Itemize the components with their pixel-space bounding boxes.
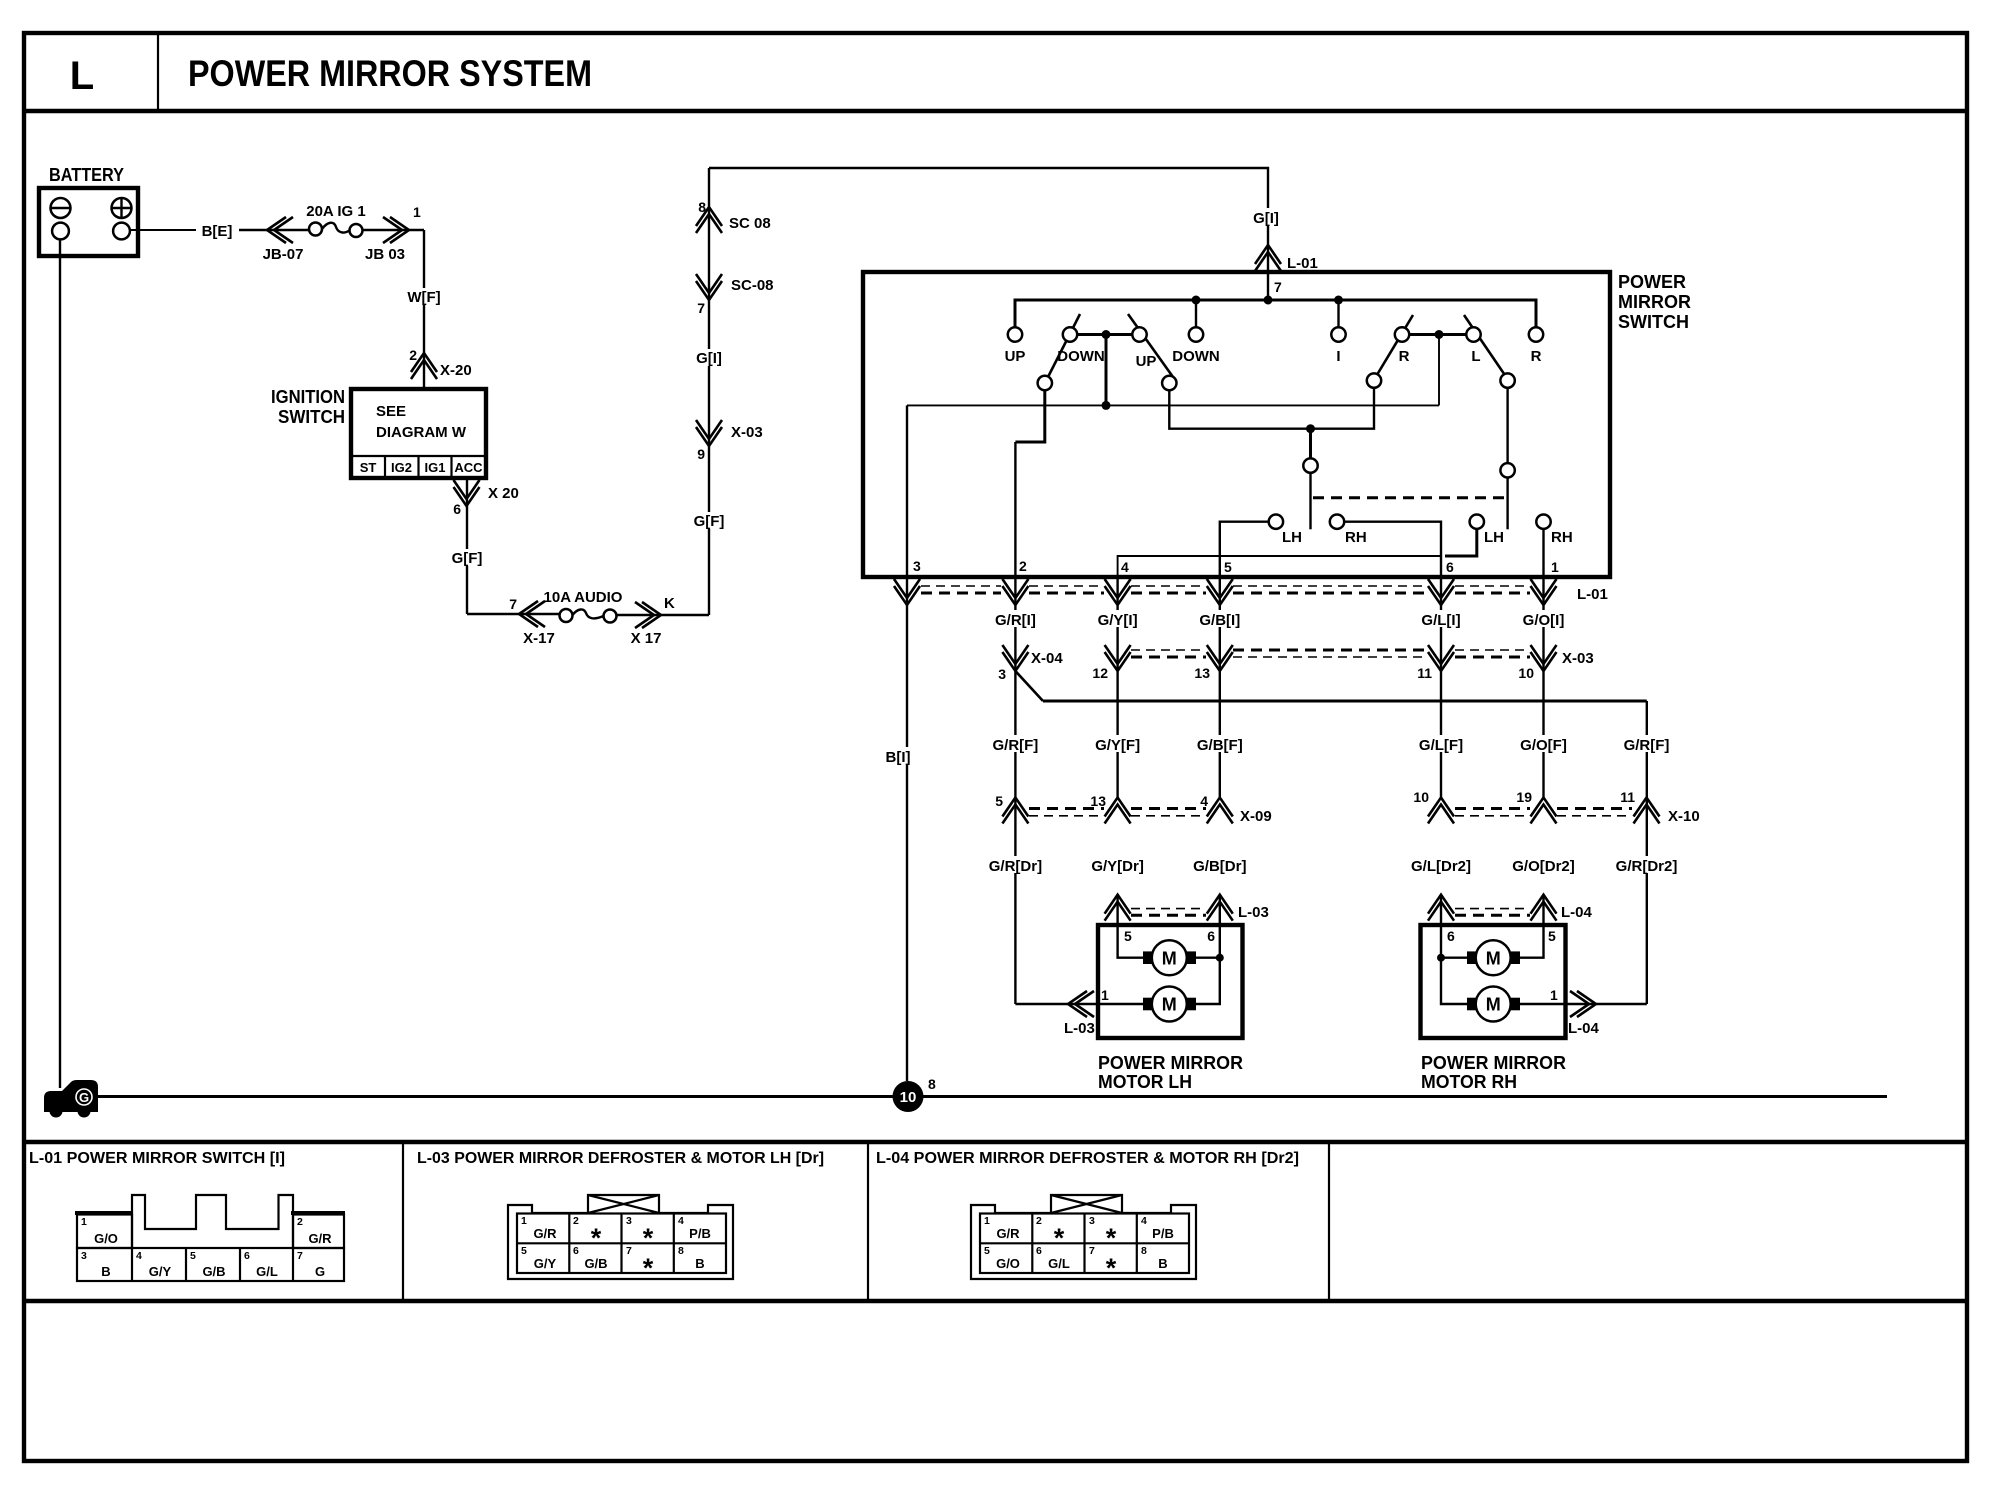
- node G/Y[F]: [1091, 735, 1144, 754]
- svg-text:X-17: X-17: [523, 630, 555, 647]
- switch blade UP: [1128, 314, 1173, 377]
- svg-text:M: M: [1162, 995, 1177, 1015]
- connector L-04 pin 6: [1428, 895, 1454, 921]
- svg-text:L-04 POWER MIRROR DEFROSTER &: L-04 POWER MIRROR DEFROSTER & MOTOR RH […: [876, 1150, 1299, 1167]
- svg-text:X-09: X-09: [1240, 808, 1272, 825]
- svg-text:G/Y[F]: G/Y[F]: [1095, 737, 1140, 754]
- svg-text:7: 7: [626, 1245, 632, 1257]
- wire G/O[I]: [1542, 577, 1544, 798]
- node G/O[F]: [1517, 735, 1570, 754]
- svg-text:7: 7: [509, 596, 517, 612]
- svg-text:4: 4: [678, 1215, 684, 1227]
- svg-text:4: 4: [1141, 1215, 1147, 1227]
- svg-text:L: L: [70, 54, 94, 98]
- connector X 17 pin K: [635, 602, 661, 628]
- svg-text:1: 1: [1551, 559, 1559, 575]
- svg-text:G/L[I]: G/L[I]: [1421, 612, 1460, 629]
- svg-text:2: 2: [1019, 558, 1027, 574]
- wire W[F]: [423, 230, 425, 389]
- svg-text:*: *: [1054, 1223, 1065, 1253]
- svg-text:G/R[F]: G/R[F]: [992, 737, 1038, 754]
- svg-text:8: 8: [678, 1245, 684, 1257]
- svg-text:L-01 POWER MIRROR SWITCH [I]: L-01 POWER MIRROR SWITCH [I]: [29, 1150, 285, 1167]
- wire: [617, 614, 710, 616]
- dashed bus: [921, 585, 1001, 587]
- node G/L[Dr2]: [1408, 856, 1474, 875]
- svg-text:7: 7: [297, 1250, 303, 1262]
- svg-text:B[I]: B[I]: [886, 749, 911, 766]
- svg-text:G/O: G/O: [996, 1256, 1020, 1271]
- svg-text:6: 6: [244, 1250, 250, 1262]
- connector L-01 pin 6: [1428, 579, 1454, 605]
- wire pin7 into switch: [1267, 272, 1269, 300]
- svg-text:X 17: X 17: [631, 630, 662, 647]
- svg-text:RH: RH: [1345, 529, 1367, 546]
- wire: [363, 229, 425, 231]
- svg-text:G/B: G/B: [584, 1256, 607, 1271]
- wire pin4 rail: [1118, 556, 1441, 577]
- svg-text:7: 7: [1274, 279, 1282, 295]
- connector L-01 pin 2: [1002, 579, 1028, 605]
- svg-text:IG1: IG1: [425, 460, 446, 475]
- svg-text:G[I]: G[I]: [696, 350, 722, 367]
- svg-text:UP: UP: [1005, 348, 1026, 365]
- wire: [239, 229, 309, 231]
- ground bus: [88, 1095, 1887, 1098]
- node G/B[Dr]: [1190, 856, 1249, 875]
- svg-text:X-04: X-04: [1031, 650, 1063, 667]
- svg-text:R: R: [1531, 348, 1542, 365]
- svg-text:P/B: P/B: [1152, 1226, 1174, 1241]
- node G/R[F]: [989, 735, 1042, 754]
- svg-text:LH: LH: [1282, 529, 1302, 546]
- svg-text:G/B[I]: G/B[I]: [1199, 612, 1240, 629]
- svg-text:G/R[Dr2]: G/R[Dr2]: [1616, 858, 1678, 875]
- svg-text:7: 7: [1089, 1245, 1095, 1257]
- connector L-03 pin 1: [1068, 991, 1094, 1017]
- svg-text:MOTOR RH: MOTOR RH: [1421, 1072, 1517, 1092]
- switch blade DOWN: [1048, 314, 1080, 377]
- svg-text:6: 6: [1207, 928, 1215, 944]
- contact UP: [1008, 327, 1022, 341]
- node G/R[I]: [990, 610, 1041, 629]
- svg-text:POWER MIRROR: POWER MIRROR: [1098, 1053, 1243, 1073]
- svg-text:1: 1: [413, 204, 421, 220]
- connector detail L-03: [508, 1195, 733, 1283]
- svg-text:G: G: [79, 1090, 89, 1105]
- svg-text:L-04: L-04: [1568, 1020, 1600, 1037]
- svg-text:MIRROR: MIRROR: [1618, 292, 1691, 312]
- svg-text:MOTOR LH: MOTOR LH: [1098, 1072, 1192, 1092]
- svg-text:8: 8: [928, 1076, 936, 1092]
- svg-text:JB 03: JB 03: [365, 246, 405, 263]
- svg-text:I: I: [1336, 348, 1340, 365]
- svg-text:10: 10: [900, 1089, 917, 1106]
- svg-text:L: L: [1471, 348, 1480, 365]
- wire pin6 RH: [1441, 895, 1467, 1004]
- node G/O[Dr2]: [1510, 856, 1577, 875]
- svg-text:IGNITION: IGNITION: [271, 387, 345, 407]
- ground car symbol G: [44, 1080, 98, 1118]
- svg-text:11: 11: [1620, 789, 1635, 805]
- svg-text:G/Y: G/Y: [149, 1264, 172, 1279]
- connector X-10 pin 11: [1634, 798, 1660, 824]
- svg-text:10: 10: [1518, 665, 1534, 681]
- connector L-03 pin 6: [1207, 895, 1233, 921]
- svg-text:7: 7: [697, 300, 705, 316]
- wire X-04 jog to right column: [1015, 671, 1043, 701]
- connector X-09 pin 5: [1002, 798, 1028, 824]
- switch blade R: [1378, 315, 1414, 374]
- svg-text:*: *: [643, 1223, 654, 1253]
- svg-text:4: 4: [1200, 793, 1208, 809]
- svg-text:X-03: X-03: [731, 424, 763, 441]
- contact I: [1331, 327, 1345, 341]
- svg-text:3: 3: [81, 1250, 87, 1262]
- svg-text:SWITCH: SWITCH: [1618, 312, 1689, 332]
- svg-text:G/Y: G/Y: [534, 1256, 557, 1271]
- svg-text:G/B[Dr]: G/B[Dr]: [1193, 858, 1246, 875]
- wire G/B[I]: [1219, 577, 1221, 798]
- node G/Y[I]: [1092, 610, 1143, 629]
- connector L-04 pin 1: [1570, 991, 1596, 1017]
- switch blade L: [1464, 315, 1505, 375]
- svg-text:G/O[I]: G/O[I]: [1523, 612, 1565, 629]
- connector L-01 pin 4: [1105, 579, 1131, 605]
- motor M up/down LH: [1143, 940, 1196, 975]
- wire right outer drop: [1506, 388, 1508, 463]
- wire pin5 RH: [1520, 895, 1544, 958]
- ignition switch: [271, 387, 486, 478]
- svg-text:X-10: X-10: [1668, 808, 1700, 825]
- svg-text:G/O: G/O: [94, 1231, 118, 1246]
- connector detail L-01: [75, 1195, 345, 1281]
- svg-text:X-03: X-03: [1562, 650, 1594, 667]
- svg-text:M: M: [1162, 948, 1177, 968]
- svg-text:SC-08: SC-08: [731, 277, 774, 294]
- svg-text:*: *: [1106, 1253, 1117, 1283]
- wire G/R[F] left column: [1014, 671, 1016, 1004]
- wire pole link: [1169, 388, 1374, 429]
- svg-text:LH: LH: [1484, 529, 1504, 546]
- svg-text:10A AUDIO: 10A AUDIO: [544, 589, 623, 606]
- svg-text:5: 5: [984, 1245, 990, 1257]
- junction: [1192, 296, 1201, 305]
- motor M up/down RH: [1467, 940, 1520, 975]
- power mirror switch box: [863, 272, 1691, 577]
- connector detail L-04: [971, 1195, 1196, 1283]
- contact RH: [1330, 515, 1344, 529]
- svg-text:G/R: G/R: [533, 1226, 557, 1241]
- svg-text:L-01: L-01: [1287, 255, 1318, 272]
- wire pin5: [1220, 522, 1269, 577]
- svg-text:G/Y[I]: G/Y[I]: [1098, 612, 1138, 629]
- svg-text:5: 5: [1548, 928, 1556, 944]
- svg-text:G/R: G/R: [308, 1231, 332, 1246]
- svg-text:L-01: L-01: [1577, 586, 1608, 603]
- contact LH 2: [1470, 515, 1484, 529]
- svg-text:12: 12: [1092, 665, 1108, 681]
- svg-text:ACC: ACC: [454, 460, 483, 475]
- svg-text:2: 2: [297, 1216, 303, 1228]
- wire distribution bus: [1015, 300, 1536, 327]
- svg-text:DIAGRAM W: DIAGRAM W: [376, 424, 467, 441]
- node G/Y[Dr]: [1088, 856, 1147, 875]
- node G/B[I]: [1194, 610, 1245, 629]
- connector X-03 pin 9: [696, 420, 722, 446]
- svg-text:5: 5: [995, 793, 1003, 809]
- fuse 10A AUDIO: [544, 589, 623, 623]
- connector L-01 row below switch: [894, 579, 1608, 605]
- svg-text:L-04: L-04: [1561, 904, 1593, 921]
- svg-text:W[F]: W[F]: [407, 289, 440, 306]
- wire G/R[F] right riser: [1646, 701, 1648, 1004]
- contact UP blade top: [1132, 327, 1146, 341]
- svg-text:*: *: [591, 1223, 602, 1253]
- junction: [1334, 296, 1343, 305]
- contact R: [1529, 327, 1543, 341]
- svg-text:G/O[F]: G/O[F]: [1520, 737, 1567, 754]
- svg-text:G[I]: G[I]: [1253, 210, 1279, 227]
- battery ground wire: [59, 240, 61, 1089]
- svg-text:G/L: G/L: [1048, 1256, 1070, 1271]
- svg-text:POWER MIRROR: POWER MIRROR: [1421, 1053, 1566, 1073]
- wire LH2 stub: [1445, 529, 1477, 556]
- connector X 20 pin 6: [454, 480, 480, 506]
- node G/L[I]: [1415, 610, 1466, 629]
- wire drop DOWN: [1195, 300, 1197, 327]
- svg-text:13: 13: [1090, 793, 1106, 809]
- svg-text:B: B: [101, 1264, 110, 1279]
- connector X-17 pin 7: [519, 601, 545, 627]
- svg-text:G[F]: G[F]: [452, 550, 483, 567]
- svg-text:6: 6: [1036, 1245, 1042, 1257]
- svg-text:G: G: [315, 1264, 325, 1279]
- svg-text:3: 3: [626, 1215, 632, 1227]
- svg-text:1: 1: [521, 1215, 527, 1227]
- svg-text:5: 5: [190, 1250, 196, 1262]
- svg-text:6: 6: [1446, 559, 1454, 575]
- node G/L[F]: [1414, 735, 1467, 754]
- wire G[F]/G[I] vertical riser: [708, 168, 710, 615]
- svg-text:20A IG 1: 20A IG 1: [306, 203, 365, 220]
- svg-text:19: 19: [1516, 789, 1532, 805]
- svg-text:L-03: L-03: [1238, 904, 1269, 921]
- ground node 10: [893, 1076, 937, 1112]
- svg-text:10: 10: [1413, 789, 1429, 805]
- wire pin1 LH to G/R[Dr]: [1015, 1003, 1143, 1005]
- connector X-09 pin 13: [1105, 798, 1131, 824]
- contact blade lower UP: [1162, 376, 1176, 390]
- svg-text:G/L[F]: G/L[F]: [1419, 737, 1463, 754]
- svg-text:6: 6: [453, 501, 461, 517]
- contact DOWN: [1189, 327, 1203, 341]
- connector X-10 pin 10: [1428, 798, 1454, 824]
- contact blade lower DOWN: [1038, 376, 1052, 390]
- svg-text:4: 4: [1121, 559, 1129, 575]
- contact R blade top: [1395, 327, 1409, 341]
- svg-text:R: R: [1399, 348, 1410, 365]
- contact blade lower L: [1500, 373, 1514, 387]
- svg-text:G/R: G/R: [996, 1226, 1020, 1241]
- svg-text:4: 4: [136, 1250, 142, 1262]
- svg-text:B: B: [1158, 1256, 1167, 1271]
- contact blade lower R: [1367, 373, 1381, 387]
- contact DOWN blade top: [1063, 327, 1077, 341]
- svg-text:8: 8: [1141, 1245, 1147, 1257]
- svg-text:5: 5: [521, 1245, 527, 1257]
- connector L-01 pin 5: [1207, 579, 1233, 605]
- wire top run to switch: [709, 168, 1268, 272]
- wire pin5 LH: [1118, 895, 1143, 958]
- svg-text:X-20: X-20: [440, 362, 472, 379]
- svg-text:1: 1: [1550, 987, 1558, 1003]
- svg-text:G/B[F]: G/B[F]: [1197, 737, 1243, 754]
- svg-text:G/O[Dr2]: G/O[Dr2]: [1512, 858, 1575, 875]
- node G/R[Dr2]: [1613, 856, 1680, 875]
- connector X-09 pin 4: [1207, 798, 1233, 824]
- power mirror motor RH: [1421, 925, 1566, 1038]
- svg-text:G/Y[Dr]: G/Y[Dr]: [1091, 858, 1144, 875]
- svg-text:3: 3: [998, 666, 1006, 682]
- svg-text:9: 9: [697, 446, 705, 462]
- node G[F]: [448, 549, 486, 566]
- svg-text:2: 2: [573, 1215, 579, 1227]
- connector L-01 pin 1: [1531, 579, 1557, 605]
- wire pin1 RH to G/R[Dr2]: [1520, 1003, 1647, 1005]
- svg-text:SWITCH: SWITCH: [278, 407, 345, 427]
- battery: [39, 165, 138, 256]
- wire blade link right: [1409, 333, 1467, 336]
- svg-text:JB-07: JB-07: [263, 246, 304, 263]
- svg-text:1: 1: [1101, 987, 1109, 1003]
- connector X-10 pin 19: [1531, 798, 1557, 824]
- svg-text:8: 8: [698, 199, 706, 215]
- motor M left/right RH: [1467, 987, 1520, 1022]
- svg-text:POWER MIRROR SYSTEM: POWER MIRROR SYSTEM: [188, 53, 592, 94]
- pole LH/RH selector: [1309, 429, 1312, 459]
- svg-text:M: M: [1486, 948, 1501, 968]
- svg-text:X 20: X 20: [488, 485, 519, 502]
- connector JB 03: [383, 217, 409, 243]
- node G[I]: [690, 349, 728, 366]
- svg-text:B[E]: B[E]: [202, 223, 233, 240]
- node G[F]: [690, 512, 728, 529]
- svg-text:5: 5: [1224, 559, 1232, 575]
- svg-text:G/R[F]: G/R[F]: [1624, 737, 1670, 754]
- svg-text:L-03 POWER MIRROR DEFROSTER &: L-03 POWER MIRROR DEFROSTER & MOTOR LH […: [417, 1150, 824, 1167]
- dashed gang link: [1313, 496, 1505, 499]
- dashed bus X-10: [1455, 809, 1632, 816]
- wire blade link left: [1077, 333, 1133, 336]
- connector X-20 pin 2: [411, 353, 437, 379]
- svg-text:ST: ST: [360, 460, 377, 475]
- connector X-03 pin 13: [1207, 645, 1233, 671]
- svg-text:11: 11: [1417, 665, 1432, 681]
- svg-text:6: 6: [573, 1245, 579, 1257]
- wire G/Y[I]: [1116, 577, 1118, 798]
- svg-text:B: B: [695, 1256, 704, 1271]
- connector L-03 pin 5: [1105, 895, 1131, 921]
- power mirror motor LH: [1098, 925, 1243, 1038]
- svg-text:*: *: [643, 1253, 654, 1283]
- svg-text:SEE: SEE: [376, 403, 406, 420]
- svg-text:POWER: POWER: [1618, 272, 1686, 292]
- connector SC-08 pin 7: [696, 274, 722, 300]
- contact L blade top: [1466, 327, 1480, 341]
- svg-text:P/B: P/B: [689, 1226, 711, 1241]
- node G/O[I]: [1518, 610, 1569, 629]
- svg-text:13: 13: [1194, 665, 1210, 681]
- svg-text:IG2: IG2: [391, 460, 412, 475]
- fuse 20A IG 1: [306, 203, 365, 237]
- contact LH: [1269, 515, 1283, 529]
- motor M left/right LH: [1143, 987, 1196, 1022]
- svg-text:2: 2: [409, 347, 417, 363]
- contact RH 2: [1536, 515, 1550, 529]
- svg-text:G[F]: G[F]: [694, 513, 725, 530]
- svg-text:1: 1: [984, 1215, 990, 1227]
- svg-text:3: 3: [913, 558, 921, 574]
- wire pin6 LH: [1196, 895, 1220, 1004]
- connector L-01 pin 7: [1255, 245, 1281, 271]
- connector L-04 pin 5: [1531, 895, 1557, 921]
- dashed bus X-03: [1131, 650, 1530, 657]
- svg-text:5: 5: [1124, 928, 1132, 944]
- wire G/L[I]: [1440, 577, 1442, 798]
- connector X-04 pin 3: [1002, 645, 1028, 671]
- svg-text:DOWN: DOWN: [1057, 348, 1105, 365]
- connector SC 08 pin 8: [696, 207, 722, 233]
- wire pin1: [1542, 529, 1544, 577]
- junction: [1264, 296, 1273, 305]
- svg-text:1: 1: [81, 1216, 87, 1228]
- wire common thin rail: [907, 404, 1439, 406]
- dashed bus X-09: [1029, 809, 1206, 816]
- svg-text:SC 08: SC 08: [729, 215, 771, 232]
- svg-text:UP: UP: [1136, 353, 1157, 370]
- svg-text:3: 3: [1089, 1215, 1095, 1227]
- node G/R[Dr]: [986, 856, 1045, 875]
- svg-text:G/L[Dr2]: G/L[Dr2]: [1411, 858, 1471, 875]
- svg-text:RH: RH: [1551, 529, 1573, 546]
- svg-text:L-03: L-03: [1064, 1020, 1095, 1037]
- node G/B[F]: [1193, 735, 1246, 754]
- svg-text:*: *: [1106, 1223, 1117, 1253]
- svg-text:G/R[Dr]: G/R[Dr]: [989, 858, 1042, 875]
- connector JB-07: [267, 217, 293, 243]
- svg-text:G/L: G/L: [256, 1264, 278, 1279]
- svg-text:M: M: [1486, 995, 1501, 1015]
- svg-text:6: 6: [1447, 928, 1455, 944]
- wire drop I: [1337, 300, 1339, 327]
- wire G/R[I]: [1014, 577, 1016, 671]
- connector X-03 pin 12: [1105, 645, 1131, 671]
- svg-text:DOWN: DOWN: [1172, 348, 1220, 365]
- wire to fuse 10A AUDIO: [467, 613, 560, 615]
- node G[I]: [1245, 208, 1287, 226]
- wire pin2: [1015, 390, 1044, 442]
- svg-text:BATTERY: BATTERY: [49, 165, 124, 185]
- connector X-03 pin 10: [1531, 645, 1557, 671]
- connector L-01 pin 3: [894, 579, 920, 605]
- wire B[I] pin3 to ground: [906, 405, 908, 1081]
- svg-text:G/R[I]: G/R[I]: [995, 612, 1036, 629]
- wire G[F] from ACC: [466, 478, 468, 614]
- svg-text:K: K: [664, 595, 675, 612]
- svg-text:2: 2: [1036, 1215, 1042, 1227]
- svg-text:G/B: G/B: [202, 1264, 225, 1279]
